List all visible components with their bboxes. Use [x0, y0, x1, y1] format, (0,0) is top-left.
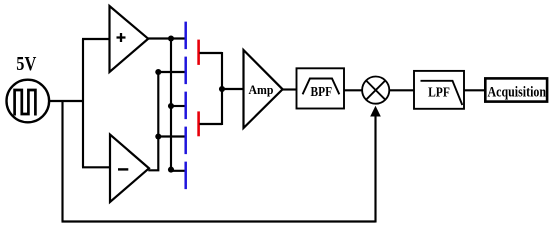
minus sign of A2 — [118, 168, 128, 170]
svg-text:5V: 5V — [16, 53, 36, 75]
buffer amplifier A2 (inverting) — [110, 135, 149, 203]
plus sign of A1 — [117, 33, 126, 42]
svg-text:Acquisition: Acquisition — [488, 84, 547, 100]
mixer U2 X diagonal 2 — [366, 81, 385, 100]
band-pass filter F1 box — [297, 68, 345, 108]
wire electrode E2 to summing bus — [200, 123, 223, 125]
band-pass filter F1 response symbol — [303, 79, 340, 95]
junction row 2 — [155, 69, 161, 75]
body boundary dashed line (blue) — [184, 22, 187, 192]
low-pass filter F2 response symbol — [421, 81, 463, 105]
wire row 3 to electrode — [171, 105, 185, 107]
wire feedback tap vertical — [61, 101, 63, 222]
wire row 4 to electrode — [158, 135, 184, 137]
wire row 5 to electrode — [171, 170, 185, 172]
wire mixer output to LPF — [390, 89, 415, 91]
source V1 square-wave symbol — [15, 90, 36, 116]
wire A1 output row 1 to electrode — [147, 37, 185, 39]
junction row 5 — [168, 167, 174, 173]
junction summing node — [219, 86, 225, 92]
pickup electrode plate E2 (red) — [197, 111, 200, 136]
mixer U2 X diagonal 1 — [366, 81, 385, 100]
wire bus A vertical row1 to row3 — [170, 39, 172, 171]
svg-text:Amp: Amp — [249, 83, 274, 97]
wire Amp output to BPF — [282, 88, 296, 90]
acquisition block box — [485, 78, 547, 101]
wire input to buffer A2 — [82, 166, 110, 168]
wire row 2 to electrode — [158, 71, 184, 73]
wire summing bus vertical — [221, 52, 223, 125]
junction row 1 — [168, 35, 174, 41]
junction row 4 — [155, 133, 161, 139]
wire A2 output to bus B — [148, 72, 158, 170]
wire summing node to Amp input — [222, 88, 244, 90]
arrowhead into mixer U2 — [370, 106, 381, 117]
wire source output to input bus — [50, 100, 84, 102]
wire input bus vertical — [82, 39, 84, 167]
svg-text:BPF: BPF — [311, 85, 333, 100]
wire BPF output to mixer — [345, 89, 363, 91]
junction row 3 — [168, 103, 174, 109]
amplifier U1 Amp triangle — [244, 50, 283, 128]
wire LPF output to acquisition — [464, 89, 485, 91]
svg-text:LPF: LPF — [428, 84, 450, 99]
buffer amplifier A1 (non-inverting) — [110, 6, 149, 72]
wire feedback vertical to mixer — [374, 112, 376, 223]
mixer U2 circle — [362, 77, 389, 104]
low-pass filter F2 box — [414, 71, 464, 109]
pickup electrode plate E1 (red) — [197, 40, 200, 65]
wire electrode E1 to summing bus — [200, 52, 223, 54]
source V1 square-wave generator circle — [7, 80, 50, 123]
wire feedback bottom horizontal — [62, 220, 376, 222]
wire input to buffer A1 — [82, 38, 109, 40]
